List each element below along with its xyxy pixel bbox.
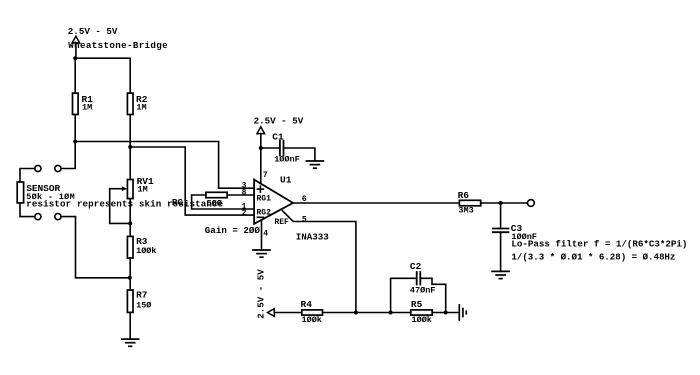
svg-text:RG1: RG1 bbox=[257, 195, 272, 204]
node C2 left junction bbox=[389, 311, 393, 315]
svg-text:R7: R7 bbox=[136, 290, 148, 301]
wire REF pin 5 to feedback node bbox=[282, 211, 356, 313]
resistor R3 bbox=[127, 236, 156, 258]
svg-text:U1: U1 bbox=[280, 175, 292, 186]
svg-text:1ØØk: 1ØØk bbox=[412, 315, 432, 325]
svg-text:Wheatstone-Bridge: Wheatstone-Bridge bbox=[68, 40, 168, 51]
sensor resistor SENSOR 50k-10M bbox=[17, 182, 74, 203]
op-amp + symbol bbox=[257, 188, 263, 190]
connector terminal top-left bbox=[35, 165, 41, 171]
resistor R6 3M3 bbox=[458, 190, 481, 215]
svg-text:2.5V - 5V: 2.5V - 5V bbox=[68, 26, 118, 37]
wire output pin 6 to R6 bbox=[293, 202, 459, 204]
wire pin 4 to ground bbox=[261, 220, 263, 250]
svg-text:Lo-Pass filter f = 1/(R6*C3*2P: Lo-Pass filter f = 1/(R6*C3*2Pi) bbox=[511, 239, 687, 250]
svg-text:1M: 1M bbox=[138, 185, 148, 195]
resistor R1 bbox=[73, 93, 94, 114]
node B junction bbox=[128, 145, 132, 149]
wire node A to op-amp + input (pin 3) bbox=[75, 142, 254, 189]
svg-text:R6: R6 bbox=[458, 190, 470, 201]
output terminal (open circle) bbox=[528, 200, 535, 207]
resistor R2 bbox=[127, 93, 147, 114]
wire node B down to RV1 top bbox=[129, 147, 131, 180]
connector terminal bottom-right bbox=[55, 214, 61, 220]
svg-text:2.5V - 5V: 2.5V - 5V bbox=[256, 269, 267, 319]
resistor RG (gain set, 500) bbox=[172, 192, 228, 208]
node A junction bbox=[73, 140, 77, 144]
power flag +2.5V-5V (top left) bbox=[72, 36, 80, 58]
wire V+ junction to pin 7 bbox=[260, 148, 262, 184]
wire top rail from junction to R2 column bbox=[75, 58, 130, 93]
svg-text:R4: R4 bbox=[301, 299, 313, 310]
ground (below C3) bbox=[492, 271, 509, 278]
capacitor C3 100nF bbox=[493, 223, 537, 242]
svg-text:C2: C2 bbox=[410, 261, 422, 272]
wire R7 to ground bbox=[129, 312, 131, 339]
ground (right-facing, end of R5) bbox=[459, 305, 466, 320]
capacitor C1 100nF bbox=[272, 132, 299, 165]
wire R4 to R5 bottom rail bbox=[323, 312, 411, 314]
capacitor C2 470nF bbox=[410, 261, 436, 295]
svg-text:1M: 1M bbox=[136, 103, 146, 113]
wire junction to C1 left plate bbox=[261, 147, 280, 149]
ground (right of C1) bbox=[306, 161, 323, 168]
svg-text:2: 2 bbox=[242, 209, 247, 218]
svg-text:15Ø: 15Ø bbox=[136, 300, 151, 310]
wire sensor top lead bbox=[20, 169, 35, 183]
wire node B to op-amp - input (pin 2) bbox=[130, 147, 254, 215]
wire node A down to sensor top-right terminal bbox=[61, 142, 75, 169]
svg-text:3M3: 3M3 bbox=[458, 206, 473, 216]
svg-text:7: 7 bbox=[263, 171, 268, 180]
svg-text:1ØØk: 1ØØk bbox=[302, 315, 322, 325]
op-amp U1 INA333 bbox=[242, 171, 330, 243]
svg-text:5: 5 bbox=[302, 215, 307, 224]
wire R6 to output terminal bbox=[481, 202, 528, 204]
wire R2 bottom to node B bbox=[129, 115, 131, 148]
resistor R5 100k bbox=[411, 299, 432, 325]
svg-text:8: 8 bbox=[242, 188, 247, 197]
node junction at power split bbox=[73, 56, 77, 60]
node output junction bbox=[499, 201, 503, 205]
svg-text:resistor represents skin resis: resistor represents skin resistance bbox=[26, 198, 223, 209]
wire C1 right plate to ground bbox=[284, 148, 315, 161]
svg-text:4: 4 bbox=[263, 229, 268, 238]
svg-text:C1: C1 bbox=[272, 132, 284, 143]
node REF junction bbox=[354, 311, 358, 315]
svg-text:1ØØk: 1ØØk bbox=[136, 246, 156, 256]
wire C3 to ground bbox=[500, 232, 502, 271]
op-amp - symbol bbox=[257, 216, 263, 218]
wire bottom-right terminal to R3/R7 node bbox=[61, 217, 130, 278]
svg-text:5ØØ: 5ØØ bbox=[207, 199, 222, 209]
svg-text:Gain = 2ØØ: Gain = 2ØØ bbox=[205, 225, 261, 236]
wire R5 to ground bbox=[432, 312, 459, 314]
node V+ junction bbox=[259, 146, 263, 150]
resistor R4 100k bbox=[301, 299, 323, 325]
wire RG right to RG1 pin bbox=[227, 194, 254, 196]
svg-text:RG: RG bbox=[172, 197, 184, 208]
svg-text:1/(3.3 * Ø.Ø1 * 6.28) = Ø.48Hz: 1/(3.3 * Ø.Ø1 * 6.28) = Ø.48Hz bbox=[511, 251, 675, 262]
wire C2 right loop bbox=[420, 278, 445, 312]
svg-text:1M: 1M bbox=[82, 103, 92, 113]
wire sensor bottom lead bbox=[20, 203, 35, 217]
ground (below R7) bbox=[122, 339, 139, 346]
node R3/R7 junction bbox=[128, 276, 132, 280]
power flag +2.5V-5V (above op-amp) bbox=[257, 127, 265, 148]
svg-text:R5: R5 bbox=[411, 299, 423, 310]
wire RG left loop pin8 to pin1 bbox=[192, 195, 255, 209]
wire RV1 bottom to R3 top bbox=[129, 199, 131, 237]
potentiometer RV1 1M bbox=[110, 176, 154, 198]
svg-text:REF: REF bbox=[274, 218, 289, 227]
svg-text:2.5V - 5V: 2.5V - 5V bbox=[254, 116, 304, 127]
wire output node down to C3 bbox=[500, 203, 502, 229]
connector terminal top-right bbox=[55, 165, 61, 171]
svg-text:INA333: INA333 bbox=[296, 232, 330, 243]
connector terminal bottom-left bbox=[35, 214, 41, 220]
wire RV1 wiper loop to bottom bbox=[110, 189, 131, 224]
wire C2 left loop bbox=[391, 278, 417, 312]
wire power junction down to R1 bbox=[74, 58, 76, 93]
node RV1 wiper junction bbox=[128, 221, 132, 225]
node C2 right junction bbox=[444, 311, 448, 315]
svg-text:47ØnF: 47ØnF bbox=[410, 286, 436, 296]
resistor R7 bbox=[127, 290, 151, 313]
wire R1 bottom to node A bbox=[74, 115, 76, 142]
power flag -2.5V-5V (left arrow, bottom) bbox=[268, 309, 302, 317]
ground (below op-amp) bbox=[253, 250, 270, 257]
svg-text:RG2: RG2 bbox=[257, 208, 272, 217]
svg-text:1ØØnF: 1ØØnF bbox=[274, 154, 300, 164]
wire R3 bottom through node to R7 bbox=[129, 258, 131, 290]
